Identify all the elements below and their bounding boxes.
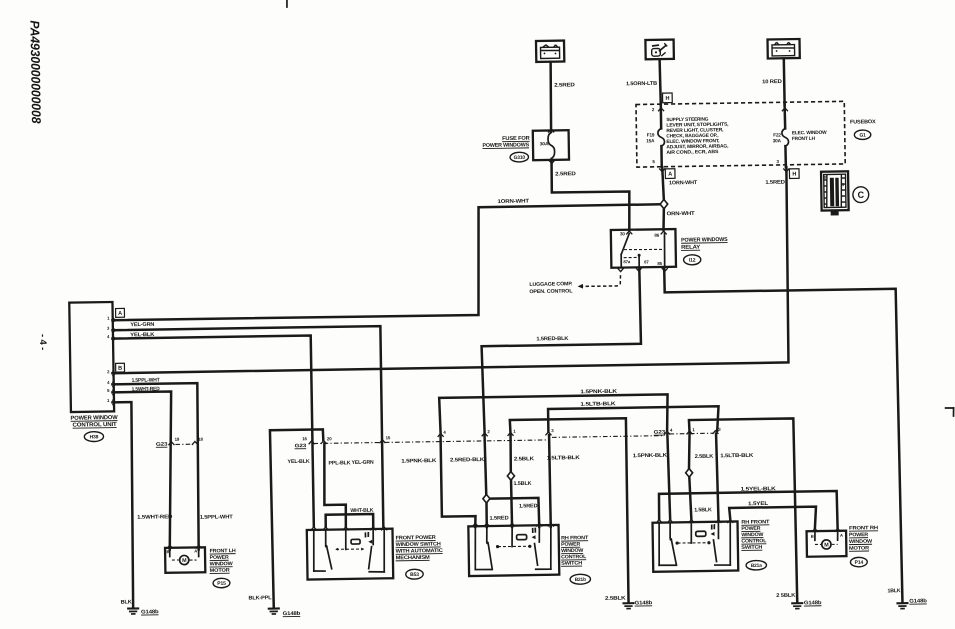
wire G23 pin4 down to switch B21a pin 2 <box>667 434 670 519</box>
relay bottom pin chevrons <box>618 268 624 271</box>
relay internal dashed lines <box>624 249 664 250</box>
svg-text:4: 4 <box>443 430 446 435</box>
wire A3 YEL-GRN to connector G23 pin 15 <box>112 326 383 531</box>
svg-text:2.5RED: 2.5RED <box>554 82 575 88</box>
connector G23 pin 1 (B21a) <box>687 431 693 434</box>
svg-text:B21a: B21a <box>751 563 762 569</box>
svg-text:3: 3 <box>718 427 721 432</box>
relay pin 87 contact stub <box>638 255 640 266</box>
fuse F19 element <box>658 128 665 146</box>
svg-text:1.5YEL: 1.5YEL <box>748 501 769 507</box>
wire 2.5BLK from G23 pin1 up and over to ground G148b <box>510 418 629 604</box>
wire B5 1.5WHT-RED to G23 pin 19 and motor P15 pin B <box>112 392 173 551</box>
svg-text:YEL-BLK: YEL-BLK <box>287 459 309 465</box>
connector G23 19-18 dashed line <box>175 443 191 445</box>
svg-text:5: 5 <box>652 159 655 164</box>
wire B4 1.5PPL-WHT to G23 pin 18 and motor P15 pin A <box>112 383 199 551</box>
svg-text:A: A <box>840 533 843 538</box>
svg-text:I12: I12 <box>689 258 696 264</box>
switch B53 internals <box>313 530 314 571</box>
svg-text:BLK: BLK <box>121 599 132 605</box>
ground G148b (control unit) <box>128 607 138 609</box>
svg-text:G310: G310 <box>514 155 526 161</box>
wire A4 YEL-BLK to connector G23 pin 16 <box>112 336 313 530</box>
svg-text:15A: 15A <box>646 138 655 143</box>
connector G23 pin 3 (B21a) <box>712 431 718 434</box>
svg-text:1: 1 <box>692 427 695 432</box>
connector G23 pin 3 (B21b) <box>545 432 551 435</box>
wire battery B2 to fusebox, 10 RED <box>783 58 786 104</box>
relay pin 30 chevron and label <box>626 231 632 234</box>
svg-text:87: 87 <box>644 259 649 264</box>
wire G23 pin3 down to switch B21a pin 4 <box>716 434 718 520</box>
svg-text:4: 4 <box>107 380 110 385</box>
svg-text:1BLK: 1BLK <box>887 588 900 594</box>
svg-text:AIR COND., ECR, ABS: AIR COND., ECR, ABS <box>666 149 719 156</box>
switch B21a RH FRONT POWER WINDOW CONTROL SWITCH box <box>653 521 739 571</box>
motor P14 FRONT RH POWER WINDOW MOTOR box <box>807 531 847 557</box>
wire G23 pin3 down to switch B21b pin 5 <box>549 435 551 527</box>
svg-text:F19: F19 <box>647 132 655 137</box>
svg-text:ORN-WHT: ORN-WHT <box>667 211 696 217</box>
svg-text:1.5LTB-BLK: 1.5LTB-BLK <box>720 453 753 460</box>
oval designator G1 <box>854 130 871 140</box>
motor P15 FRONT LH POWER WINDOW MOTOR box <box>165 547 205 573</box>
fuse F19 wire bottom <box>660 146 663 167</box>
svg-text:1.5LTB-BLK: 1.5LTB-BLK <box>580 401 615 408</box>
svg-text:15: 15 <box>386 435 391 440</box>
motor P15 M symbol <box>180 555 189 564</box>
svg-text:2.5BLK: 2.5BLK <box>605 596 626 602</box>
ignition switch symbol <box>645 40 673 60</box>
svg-text:1.5PNK-BLK: 1.5PNK-BLK <box>401 458 436 465</box>
svg-text:2.5BLK: 2.5BLK <box>695 454 714 460</box>
svg-text:1: 1 <box>513 429 516 434</box>
svg-text:30A: 30A <box>540 141 550 146</box>
wire G23 pin4 down to switch B21b pin 1 <box>441 435 476 527</box>
fusebox G1 dashed outline <box>636 101 845 167</box>
connector G23 pin 2 (B21b) <box>482 433 488 436</box>
connector G23 pin 16 <box>309 441 315 444</box>
svg-text:3: 3 <box>551 428 554 433</box>
wire 1ORN-WHT diamond to control unit pin A1 <box>111 204 662 320</box>
wire 1.5YEL switch B21a pin5 to motor P14 pin B <box>729 507 816 530</box>
svg-text:- 4 -: - 4 - <box>37 334 48 350</box>
svg-text:1.5PPL-WHT: 1.5PPL-WHT <box>200 514 234 521</box>
connector H label below fusebox F22 <box>783 168 789 171</box>
battery B1 (left) symbol <box>536 41 564 62</box>
connector A label at control unit <box>116 308 125 317</box>
svg-text:B: B <box>118 366 122 372</box>
relay internal switch arm <box>621 233 630 254</box>
wire fusebox A to junction diamond, 1ORN-WHT <box>662 167 664 200</box>
svg-text:1ORN-WHT: 1ORN-WHT <box>497 198 530 204</box>
wire ignition to fusebox, 1.5ORN-LTB <box>660 59 661 104</box>
top edge tick mark <box>286 0 288 7</box>
svg-text:ADJUST, MIRROR, AIRBAG,: ADJUST, MIRROR, AIRBAG, <box>666 143 729 150</box>
svg-text:1.5PNK-BLK: 1.5PNK-BLK <box>633 453 667 460</box>
svg-text:3: 3 <box>776 159 779 164</box>
svg-text:H: H <box>792 172 796 178</box>
connector G23 pin 4 (B21b) <box>438 433 444 436</box>
svg-text:19: 19 <box>175 437 180 442</box>
ground G148b (2.5BLK right) <box>792 602 802 604</box>
svg-text:C: C <box>858 190 865 200</box>
svg-text:2: 2 <box>107 369 110 374</box>
svg-text:A: A <box>668 172 672 178</box>
svg-text:1.5PNK-BLK: 1.5PNK-BLK <box>580 389 617 396</box>
wire relay pin 85 to ground, BLK <box>664 264 902 605</box>
svg-text:YEL-GRN: YEL-GRN <box>130 322 154 328</box>
wire G23 pin1 down through diamond to switch B21a, 1.5BLK <box>688 433 690 469</box>
fuse F19 wire top <box>660 105 663 129</box>
oval designator B21b <box>570 574 591 584</box>
oval designator P14 <box>850 557 867 567</box>
wire G23 pin2 down through diamond to switch B21b pin 2, 1.5RED <box>485 435 487 494</box>
oval designator B21a <box>746 560 767 570</box>
svg-text:1.5ORN-LTB: 1.5ORN-LTB <box>626 81 657 87</box>
connector G23 pin 15 <box>379 440 385 443</box>
svg-text:P14: P14 <box>855 560 864 566</box>
connector illustration C <box>821 171 849 210</box>
wire 1.5RED branch to switch B21b pin 4 <box>490 498 539 528</box>
control unit H38 POWER WINDOW CONTROL UNIT box <box>69 302 114 412</box>
ground G148b (2.5BLK left) <box>624 602 634 604</box>
svg-text:1.5BLK: 1.5BLK <box>694 507 712 513</box>
svg-text:2: 2 <box>487 429 490 434</box>
wire fuse G310 to relay pin 30, 2.5RED <box>551 159 630 231</box>
svg-text:F22: F22 <box>773 132 781 137</box>
connector G23 dashed line across (16..15..4..2..1..3) <box>313 440 548 444</box>
svg-text:FUSEBOX: FUSEBOX <box>850 119 876 125</box>
relay I12 POWER WINDOWS RELAY box <box>611 229 676 268</box>
svg-text:M: M <box>824 542 829 548</box>
svg-text:H: H <box>665 96 669 102</box>
svg-text:4: 4 <box>670 428 673 433</box>
svg-text:B: B <box>811 534 814 539</box>
wire relay pin 87 to switch B21b pin 2, 1.5RED-BLK/2.5RED-BLK <box>480 268 642 434</box>
connector G23 pin 1 (B21b) <box>508 432 514 435</box>
motor P14 M symbol <box>822 540 831 549</box>
svg-text:2.5BLK: 2.5BLK <box>514 456 534 462</box>
svg-text:LUGGAGE COMP.: LUGGAGE COMP. <box>529 281 573 288</box>
switch B21b RH FRONT POWER WINDOW CONTROL SWITCH box <box>468 525 559 576</box>
svg-text:PPL-BLK: PPL-BLK <box>328 460 350 466</box>
wire PPL-BLK G23 pin 20 to switch B53 pin 3 <box>323 443 346 527</box>
svg-text:87a: 87a <box>623 259 631 264</box>
ground G148b (far right, 1BLK) <box>897 602 907 604</box>
svg-text:1.5WHT-RED: 1.5WHT-RED <box>137 514 172 521</box>
svg-text:1.5RED: 1.5RED <box>489 515 508 521</box>
wire WHT-BLK jumper in switch B53 <box>326 514 374 527</box>
svg-text:2.5RED: 2.5RED <box>555 171 576 177</box>
svg-text:B53: B53 <box>410 572 419 578</box>
svg-text:A: A <box>118 311 122 317</box>
svg-text:10 RED: 10 RED <box>762 79 782 85</box>
ground G148b (BLK-PPL) <box>269 607 279 609</box>
svg-text:85: 85 <box>657 261 662 266</box>
svg-text:3: 3 <box>107 326 110 331</box>
battery B2 (right) symbol <box>768 39 800 58</box>
wire 1.5LTB-BLK between G23 pin3 (B21b) and G23 pin3 (B21a) <box>548 406 719 433</box>
fuse G310 FUSE FOR POWER WINDOWS <box>533 130 569 160</box>
svg-text:FRONT LH: FRONT LH <box>792 136 816 142</box>
svg-text:H38: H38 <box>90 434 99 440</box>
wire BLK-PPL from G23 pin 20 to ground G148b <box>270 429 326 607</box>
oval designator I12 <box>684 255 701 265</box>
svg-text:YEL-BLK: YEL-BLK <box>130 332 154 338</box>
svg-text:WHT-BLK: WHT-BLK <box>350 508 373 514</box>
svg-text:P15: P15 <box>217 581 226 587</box>
fuse F22 wire top <box>783 105 786 129</box>
svg-text:1.5BLK: 1.5BLK <box>513 481 531 487</box>
wire battery B1 to fuse G310, 2.5RED <box>550 62 552 131</box>
wire 1.5PNK-BLK between G23 pin4 (B21b) and G23 pin4 (B21a) <box>439 394 668 434</box>
connector G23 pin 20 <box>321 441 327 444</box>
wire G23 pin1 through diamond to switch B21b pin 3, 1.5BLK <box>509 435 512 472</box>
switch B53 FRONT POWER WINDOW SWITCH box <box>307 529 393 580</box>
svg-text:1: 1 <box>107 316 110 321</box>
svg-text:16: 16 <box>302 436 307 441</box>
connector G23 pin 4 (B21a) <box>664 431 670 434</box>
svg-text:PA4930000000008: PA4930000000008 <box>27 20 44 124</box>
oval designator P15 <box>213 578 230 588</box>
svg-text:1.5RED: 1.5RED <box>519 503 538 509</box>
connector G23 dashed line (B21a) <box>670 432 714 435</box>
wire 2.5BLK from G23 pin1 up over to ground G148b (right) <box>689 418 797 603</box>
svg-text:OPEN. CONTROL: OPEN. CONTROL <box>529 288 572 295</box>
fuse F22 element <box>782 128 789 146</box>
switch B21a internals <box>659 523 660 566</box>
svg-text:1.5LTB-BLK: 1.5LTB-BLK <box>547 455 580 462</box>
svg-text:5: 5 <box>107 388 110 393</box>
dashed wire to luggage comp. open. control <box>619 275 622 285</box>
oval designator H38 <box>84 432 103 442</box>
oval designator B53 <box>406 569 424 579</box>
relay pin 86 chevron and label <box>661 231 667 234</box>
svg-text:1.5RED: 1.5RED <box>765 180 785 186</box>
fuse F22 wire bottom <box>784 146 787 167</box>
wire fusebox H down to control unit B2 feed, 1.5RED <box>109 167 789 373</box>
connector H label at fusebox top <box>663 93 673 103</box>
svg-text:B21b: B21b <box>575 577 586 583</box>
svg-text:30A: 30A <box>773 138 782 143</box>
connector A label below fusebox F19 <box>659 168 665 171</box>
svg-text:2: 2 <box>652 107 655 112</box>
svg-text:1.5YEL-BLK: 1.5YEL-BLK <box>741 486 776 493</box>
svg-text:2 5BLK: 2 5BLK <box>776 593 795 599</box>
svg-text:1: 1 <box>107 398 110 403</box>
svg-text:ELEC. WINDOW: ELEC. WINDOW <box>792 130 827 137</box>
svg-text:20: 20 <box>327 436 332 441</box>
svg-text:4: 4 <box>107 334 110 339</box>
connector B label at control unit <box>116 363 125 372</box>
svg-text:30: 30 <box>620 231 625 236</box>
svg-text:86: 86 <box>654 233 659 238</box>
wire diamond to relay pin 86, ORN-WHT <box>663 208 664 230</box>
oval designator G310 <box>510 152 529 162</box>
wire B1 BLK to ground G148b <box>112 402 134 608</box>
svg-text:18: 18 <box>198 437 203 442</box>
svg-text:M: M <box>182 558 187 564</box>
connector G23 pin 19 <box>168 442 174 445</box>
connector G23 pin 18 <box>192 441 198 444</box>
svg-text:BLK-PPL: BLK-PPL <box>248 595 272 601</box>
svg-text:1ORN-WHT: 1ORN-WHT <box>669 180 698 186</box>
svg-text:A: A <box>194 549 197 554</box>
svg-text:YEL-GRN: YEL-GRN <box>352 460 374 466</box>
relay coil side vertical <box>663 234 666 266</box>
svg-text:1.5RED-BLK: 1.5RED-BLK <box>536 336 568 342</box>
svg-text:2.5RED-BLK: 2.5RED-BLK <box>450 457 484 464</box>
switch B21b internals <box>475 526 476 569</box>
svg-text:G1: G1 <box>859 133 866 139</box>
right edge mark <box>946 407 954 409</box>
circled letter C <box>853 187 869 203</box>
wire 1.5YEL-BLK switch B21a pin1 to motor P14 pin A <box>659 491 838 531</box>
